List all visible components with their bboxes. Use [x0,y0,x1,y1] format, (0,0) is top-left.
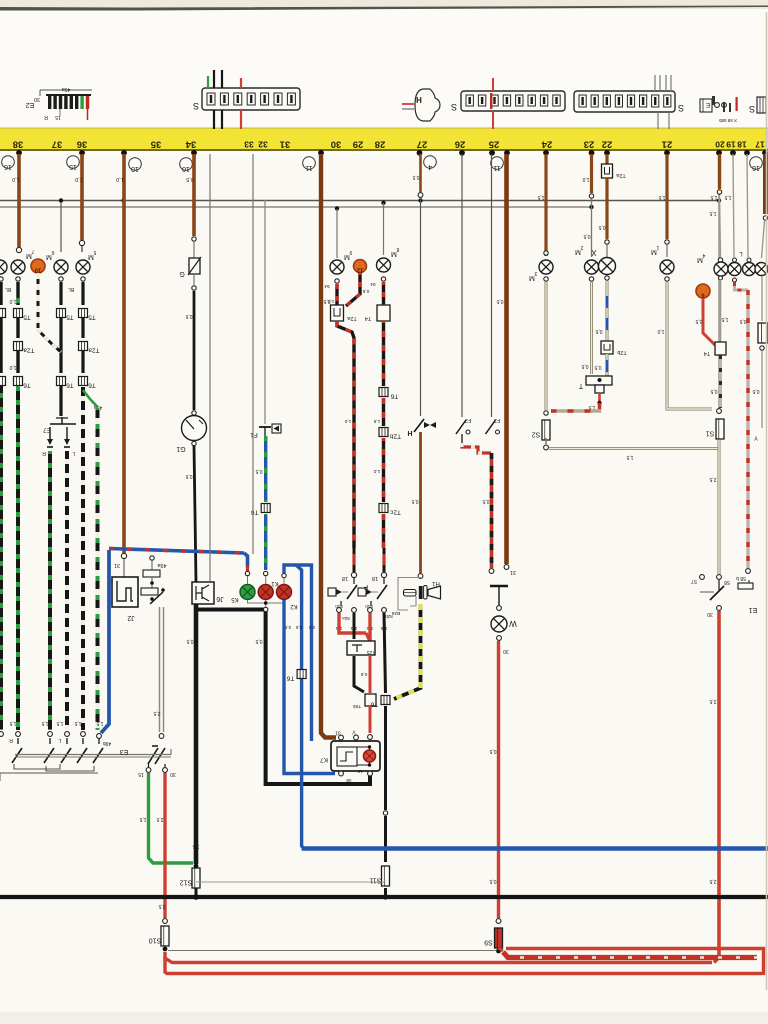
svg-text:22: 22 [602,139,613,150]
rail junction [418,198,422,202]
bar junction [589,150,595,156]
wire brown t21 [665,154,668,239]
connector ref 15 [67,156,80,169]
svg-text:15: 15 [138,771,144,777]
svg-text:0,5: 0,5 [496,298,503,304]
svg-text:1,5: 1,5 [56,720,63,726]
svg-text:82a: 82a [342,616,350,621]
svg-text:33: 33 [244,140,254,150]
wire striped yellow-black horn [394,604,421,699]
svg-text:30: 30 [503,648,509,654]
svg-text:1,5: 1,5 [192,843,199,849]
svg-text:R: R [44,114,48,120]
wire striped A down [337,321,354,548]
svg-text:G1: G1 [176,445,185,452]
wire M6 to E7 [59,386,62,416]
wire black T25 bottom jog [354,656,364,692]
wire blue K2 nest outer [284,565,312,741]
diode symbol A [328,588,336,596]
wire red jog to striped [462,443,492,453]
bus blue to right edge [302,846,768,851]
wire t20 to M4 [720,195,721,257]
svg-text:1,5: 1,5 [41,720,48,726]
wire F1 feed [264,200,266,424]
wire brown t36 [80,154,84,240]
wire blue J2 side down to 49b [101,550,109,733]
svg-text:S1: S1 [706,430,715,437]
wire S1 down pair [718,440,721,574]
svg-text:M: M [651,248,657,255]
svg-text:18: 18 [737,140,747,150]
svg-text:1,5: 1,5 [724,194,731,200]
svg-text:30: 30 [707,611,713,617]
fuse S11 [382,866,390,886]
svg-text:1,5: 1,5 [721,316,728,322]
bar junction [318,150,324,156]
switch arm E3 double [152,745,158,747]
svg-text:49a: 49a [62,86,71,92]
svg-text:18: 18 [372,575,378,581]
svg-text:1,5: 1,5 [709,210,716,216]
bar junction [664,150,670,156]
svg-text:T6: T6 [23,382,31,389]
svg-text:T5: T5 [23,314,31,321]
svg-text:T: T [578,382,583,389]
bar junction [744,150,750,156]
wire t19 [733,154,734,257]
junction T6 mid [379,388,388,397]
wire red through strip A [492,78,494,91]
rail junction [717,198,721,202]
bar junction [79,150,85,156]
svg-text:M: M [391,250,397,257]
switch arms E3 [17,738,19,744]
svg-text:2,5: 2,5 [158,903,165,909]
svg-text:X: X [591,248,597,257]
svg-text:30: 30 [331,139,342,150]
svg-text:1,5: 1,5 [658,194,665,200]
stub wire t33b [252,154,254,554]
svg-text:W: W [509,619,517,628]
wire striped lamp A to T2a [335,284,338,305]
svg-text:1,5: 1,5 [588,404,595,410]
svg-text:T2b: T2b [617,349,626,355]
fuse S2 [542,420,550,440]
switch E1 [718,580,720,590]
wire striped gnblk col3 [65,451,69,730]
switch E7 [50,423,76,425]
svg-text:29: 29 [353,139,364,150]
marker 10 orange [31,259,45,273]
stub wire t34b to J6 [209,154,211,581]
svg-text:0,5: 0,5 [185,473,192,479]
wire black above strip [213,70,215,88]
bus red C [506,947,765,950]
fuse strip S mid-top [202,88,300,110]
component edge box [761,276,763,321]
svg-text:1,0: 1,0 [373,468,380,474]
indicator K2 red [277,585,292,600]
link fuse line thin [196,881,386,883]
horn H1 [419,586,423,599]
svg-text:0,5: 0,5 [595,328,602,334]
wire striped grey-black to S1 [719,355,722,408]
resistor E1 [738,583,753,589]
bus red A [165,952,712,963]
wire red T25 down [369,655,372,693]
svg-text:1,0: 1,0 [657,328,664,334]
svg-text:54: 54 [324,283,330,289]
svg-text:20: 20 [715,140,725,150]
wire blue short [606,354,609,376]
svg-text:37: 37 [52,139,63,150]
svg-text:35: 35 [150,139,161,150]
svg-text:T2c: T2c [389,509,401,516]
switch H [414,419,424,432]
svg-text:1,0: 1,0 [9,364,16,370]
junction box T25 [347,641,375,655]
svg-text:2,5: 2,5 [156,816,163,822]
junction T2b [601,341,613,354]
marker 6 orange [696,284,710,298]
svg-text:L: L [72,450,75,456]
lamp B terminal [381,277,385,281]
svg-text:T4: T4 [704,350,710,356]
wire black F col down [353,613,356,639]
svg-text:49: 49 [346,777,352,783]
wire 2.5 pair from J2 [159,607,161,732]
svg-text:0,5: 0,5 [489,878,496,884]
junction T4 mid [377,305,390,321]
rail S2-S1 [549,447,719,450]
wire brown battery t29 [321,154,336,738]
wire brown t22 [605,154,608,164]
lamp W [491,616,507,632]
svg-text:10: 10 [182,165,190,172]
sensor F1 [259,426,271,428]
svg-text:T2b: T2b [390,433,402,440]
wire lamp M6 down [59,277,63,281]
relay K7 box [331,741,380,771]
svg-text:0,5: 0,5 [362,288,369,294]
svg-text:57: 57 [691,578,697,584]
connector ref 16 [750,157,763,170]
wire striped from marker 12 [346,273,360,306]
wire t20 brown stub [718,154,721,189]
wire blue K2 nest inner to bus [296,565,304,849]
svg-text:T2a: T2a [346,315,356,321]
wire F2a feed [461,154,463,417]
lamp A terminal [335,279,339,283]
svg-text:T25: T25 [366,649,375,655]
svg-text:S2: S2 [532,431,541,438]
junction T9 [381,696,390,705]
svg-text:2,5: 2,5 [709,698,716,704]
svg-text:2,5: 2,5 [709,476,716,482]
svg-text:G: G [179,270,184,277]
svg-text:M: M [697,256,703,263]
bar junction [489,150,495,156]
junction T4 [715,342,726,355]
wire M2 feed [591,199,593,257]
svg-text:0,5: 0,5 [186,638,193,644]
wire G1 down [194,446,196,582]
wire striped blue-green F1 to K1 [264,436,267,502]
svg-text:J6: J6 [216,595,224,602]
svg-text:49a: 49a [156,562,166,568]
svg-text:E2: E2 [26,101,35,108]
svg-text:M: M [344,253,350,260]
svg-text:K5: K5 [231,596,239,602]
junction T5b [365,694,376,706]
lamp M2 [585,260,599,274]
wire M3 down to S2 [544,277,548,281]
svg-text:Y: Y [754,434,758,440]
svg-text:1,0: 1,0 [582,176,589,182]
sender G [193,242,195,258]
svg-text:M: M [88,253,94,260]
lamp B [377,258,391,272]
svg-text:T5: T5 [66,314,74,321]
wire red E1 down [714,611,719,963]
terminal 15 green [146,768,151,773]
fuse strip S top-B [574,91,675,112]
svg-text:0,5: 0,5 [255,638,262,644]
svg-text:49b: 49b [103,740,112,746]
svg-text:1,5: 1,5 [74,720,81,726]
bus red B [165,956,762,974]
wire F2b feed [491,154,493,417]
svg-text:K1: K1 [271,580,279,586]
svg-text:T6: T6 [390,393,398,400]
svg-text:H1: H1 [432,580,440,586]
svg-text:S12: S12 [180,879,193,886]
svg-text:K7: K7 [320,756,328,763]
svg-text:10: 10 [34,267,41,273]
svg-text:M: M [529,274,535,281]
svg-text:3: 3 [534,270,537,276]
wire lamp A feed [335,206,339,210]
svg-text:E: E [705,101,710,108]
bar junction [716,150,722,156]
wire orange branch striped [38,273,61,352]
svg-text:1,0: 1,0 [327,298,334,304]
bar junction [604,150,610,156]
fuse S1 [716,419,724,439]
connector ref 16 [2,156,15,169]
bar junction [543,150,549,156]
wire red from marker [703,298,715,345]
svg-text:0,5: 0,5 [295,625,302,630]
svg-text:82b: 82b [385,614,393,619]
wire brown battery t30 [504,154,509,564]
svg-text:1,5: 1,5 [9,720,16,726]
indicator lamp in K7 [364,750,376,762]
svg-text:T6: T6 [370,701,378,708]
bus red riser [762,947,765,975]
junction T2a mid [331,305,344,321]
gauge G1 [182,416,207,441]
wire brown t33 [122,154,126,553]
junction T2b mid [379,428,388,437]
lamp M5 [76,260,90,274]
svg-text:17: 17 [755,140,765,150]
svg-text:S10: S10 [149,937,162,944]
lamp M3 [544,251,548,255]
svg-text:T6: T6 [251,509,259,516]
svg-text:15: 15 [357,768,363,774]
svg-text:S: S [193,101,199,111]
svg-text:0,5: 0,5 [185,313,192,319]
svg-text:T2a: T2a [615,172,625,178]
svg-text:X 58 58b: X 58 58b [718,118,737,123]
svg-text:0,5: 0,5 [752,388,759,394]
rail junction [121,198,125,202]
svg-text:38: 38 [13,139,24,150]
svg-text:25: 25 [488,139,499,150]
module J6 [192,582,214,604]
svg-text:16: 16 [752,164,760,171]
svg-text:S: S [451,102,457,112]
wire striped blue-red to K5 [109,549,244,554]
lamp L3 [755,263,768,276]
svg-text:1,5: 1,5 [626,454,633,460]
svg-text:T4: T4 [365,315,371,321]
indicator K5 green [240,585,255,600]
svg-text:S: S [749,104,755,114]
svg-text:36: 36 [77,139,88,150]
wire red to K7 top [369,706,372,733]
wire lamp M7 down [16,277,20,281]
svg-text:T5b: T5b [353,703,362,709]
wire t20 to S1 [718,154,720,408]
svg-text:7: 7 [31,248,34,254]
fuse strip S top-A [461,91,565,111]
svg-text:26: 26 [455,139,466,150]
svg-text:6: 6 [51,249,54,255]
arrow contacts under E7 [49,427,51,439]
wire red stub under T [598,393,601,401]
svg-text:16: 16 [4,163,12,170]
rail E3 lower [0,772,98,774]
svg-text:1,0: 1,0 [75,176,83,182]
lamp left edge [0,260,7,274]
svg-text:1,0: 1,0 [344,418,351,424]
connector ref 10 [129,158,142,171]
svg-text:1: 1 [656,244,659,250]
wire lamp B feed [381,201,385,205]
bar junction [417,150,423,156]
rail junction [59,198,63,202]
svg-text:19: 19 [726,140,736,150]
ground rail line 2 [0,206,592,208]
wire t17 to lamp [762,221,765,258]
wire M2 down hollow [589,277,593,281]
svg-text:T2a: T2a [23,347,35,354]
wire brown t24 [544,154,547,256]
terminal 57 58 [700,575,705,580]
wire red F jog [339,613,366,633]
svg-text:S9: S9 [484,939,493,946]
wire thick black J6 down [194,604,199,864]
svg-text:18: 18 [342,575,348,581]
page top edge [0,6,768,11]
connector ref 11 [491,157,504,170]
brackets E3 [14,764,60,769]
svg-text:11: 11 [493,164,500,171]
wire green ignition [149,773,194,863]
svg-text:2,5: 2,5 [153,710,160,716]
relay J2 switch arm [150,592,163,604]
K7 bottom terminals [339,771,344,776]
svg-text:34: 34 [185,139,196,150]
junction T6 on blue [297,670,306,679]
svg-text:2,5: 2,5 [709,878,716,884]
terminals above E3 [16,732,21,737]
svg-text:4: 4 [702,252,705,258]
wire brown t38 [17,154,21,247]
svg-text:10: 10 [131,165,139,172]
wire 49a elbow to striped col5 [83,390,98,407]
svg-text:31: 31 [510,569,516,575]
svg-text:0,5: 0,5 [594,364,601,370]
svg-text:1,5: 1,5 [96,720,103,726]
svg-text:S: S [678,103,684,113]
relay J2 contacts right [150,556,154,560]
component cluster top-right E [700,99,712,112]
wire to F circle A [353,548,356,572]
svg-text:0,5: 0,5 [482,498,489,504]
fuse S12 [194,864,199,869]
wire F B down to T6 box [384,613,386,693]
svg-text:23: 23 [584,139,595,150]
wire brown t23 stub [590,154,593,193]
svg-text:1,5: 1,5 [537,194,544,200]
wire G to G1 [193,291,196,410]
relay J2 [123,559,125,577]
bar junction [504,150,510,156]
wire blue K2 bottom to K7 [284,600,335,774]
wire M4 down [719,276,723,280]
terminal 30 red [163,768,168,773]
svg-text:4: 4 [428,163,432,170]
wire S2 bottom [545,438,547,444]
svg-text:30: 30 [170,771,176,777]
wire black horn to fuse [384,706,387,810]
wire t18 [747,154,748,257]
svg-text:1,0: 1,0 [12,176,20,182]
svg-text:0,5: 0,5 [308,625,315,630]
bus red striped [503,952,757,958]
svg-text:E3: E3 [120,748,129,755]
bar junction [459,150,465,156]
wire H switch feed [419,154,422,192]
svg-text:H: H [407,429,412,436]
svg-text:H: H [416,95,422,104]
svg-text:11: 11 [305,164,312,171]
svg-text:1,5: 1,5 [373,418,380,424]
svg-text:B26: B26 [391,610,400,616]
svg-text:M: M [46,253,52,260]
svg-text:M: M [26,252,32,259]
horn H top [415,89,440,121]
svg-text:BL: BL [5,286,11,292]
svg-text:1,0: 1,0 [9,298,16,304]
lamp L2 [747,258,751,262]
wire left edge down [0,277,3,281]
lamp X [605,240,609,244]
svg-text:0,5: 0,5 [360,671,367,677]
